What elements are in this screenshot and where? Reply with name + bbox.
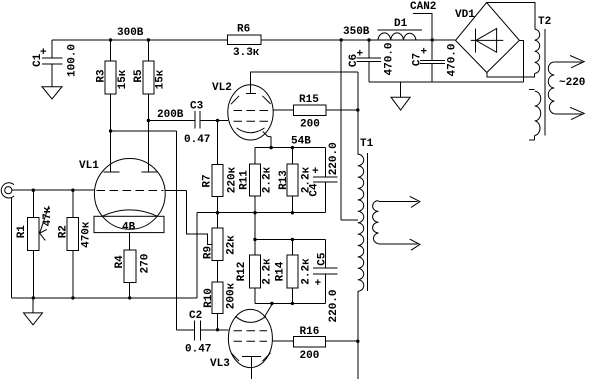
- svg-text:4В: 4В: [122, 222, 136, 234]
- svg-text:22к: 22к: [225, 235, 237, 255]
- svg-text:VL3: VL3: [210, 358, 230, 370]
- wire bridge top to T2 primary: [487, 3, 535, 30]
- resistor R6: [228, 24, 262, 60]
- svg-text:R12: R12: [236, 262, 248, 282]
- svg-text:200: 200: [300, 119, 320, 131]
- transformer T1: [358, 138, 379, 379]
- svg-text:+: +: [315, 278, 322, 290]
- svg-text:R14: R14: [274, 261, 286, 281]
- svg-text:270: 270: [139, 254, 151, 274]
- svg-text:C4: C4: [308, 183, 320, 197]
- capacitor C3: [184, 101, 210, 147]
- svg-text:R16: R16: [300, 326, 320, 338]
- resistor R9: [203, 211, 238, 282]
- resistor R16: [272, 326, 359, 362]
- node 200B wire with junction: [147, 119, 150, 122]
- svg-text:300В: 300В: [117, 27, 144, 39]
- svg-text:15к: 15к: [117, 69, 129, 89]
- transformer T2: [529, 16, 554, 140]
- terminal CAN2: [410, 1, 436, 42]
- svg-text:470.0: 470.0: [383, 42, 395, 75]
- wire bridge bottom to T2 primary bottom: [487, 73, 535, 78]
- capacitor C7: [412, 40, 459, 82]
- resistor R11: [239, 148, 274, 213]
- resistor R2: [57, 190, 92, 298]
- svg-text:C3: C3: [190, 101, 204, 113]
- svg-text:VL2: VL2: [212, 82, 232, 94]
- svg-text:R5: R5: [133, 69, 145, 83]
- svg-text:R1: R1: [16, 225, 28, 239]
- resistor R14: [274, 240, 312, 304]
- svg-text:350В: 350В: [343, 26, 370, 38]
- resistor R7: [202, 119, 239, 213]
- tube VL1: [79, 159, 165, 230]
- svg-text:+: +: [421, 47, 428, 59]
- svg-text:+: +: [312, 166, 319, 178]
- resistor R5: [133, 38, 166, 172]
- wire VL1 grid to feedback: [165, 190, 187, 192]
- svg-text:C5: C5: [317, 252, 329, 266]
- svg-text:R6: R6: [237, 24, 250, 36]
- svg-text:220.0: 220.0: [328, 142, 340, 175]
- capacitor C1: [32, 40, 79, 87]
- wire top rail 300V left: [52, 39, 228, 41]
- svg-text:220.0: 220.0: [328, 289, 340, 322]
- capacitor C2: [185, 310, 211, 356]
- svg-text:+: +: [40, 47, 47, 59]
- svg-text:2.2к: 2.2к: [261, 258, 273, 285]
- wire 350V feed down to T1 center tap: [340, 38, 343, 41]
- svg-text:200В: 200В: [157, 109, 184, 121]
- choke D1: [378, 18, 422, 40]
- svg-text:R2: R2: [57, 225, 69, 238]
- wire T2 secondary top arrow: [554, 56, 584, 68]
- svg-text:D1: D1: [394, 18, 408, 30]
- node 54B wire: [255, 147, 326, 149]
- svg-text:0.47: 0.47: [184, 134, 210, 146]
- svg-text:C2: C2: [189, 310, 202, 322]
- svg-text:54В: 54В: [291, 136, 311, 148]
- capacitor C6: [348, 38, 396, 82]
- capacitor C4: [308, 142, 340, 212]
- svg-text:200к: 200к: [226, 282, 238, 309]
- junction input wire R2: [71, 189, 74, 192]
- svg-text:~220: ~220: [559, 77, 585, 89]
- wire ground bus: [11, 297, 196, 299]
- svg-text:2.2к: 2.2к: [261, 166, 273, 193]
- wire T1 secondary top arrow: [379, 196, 420, 207]
- svg-text:R15: R15: [299, 94, 319, 106]
- svg-text:R3: R3: [96, 69, 108, 83]
- wire cathode network upper (y212.7): [197, 212, 326, 214]
- heater box 4B: [94, 216, 164, 250]
- wire feedback from VL1 grid to R9: [187, 191, 213, 245]
- junction input wire R1: [32, 189, 35, 192]
- svg-text:R13: R13: [278, 170, 290, 190]
- wire cathode network lower (y303.4): [255, 302, 326, 304]
- wire C2 to VL3 grid: [200, 329, 228, 331]
- svg-text:R4: R4: [114, 255, 126, 269]
- svg-text:VD1: VD1: [455, 9, 475, 21]
- svg-text:47к: 47к: [42, 206, 54, 226]
- svg-text:T2: T2: [538, 16, 551, 28]
- input connector X1: [1, 183, 94, 298]
- resistor R12: [236, 240, 273, 304]
- wire top rail 300V-350V-bridge: [261, 39, 455, 41]
- svg-text:R9: R9: [203, 246, 215, 259]
- svg-text:+: +: [357, 49, 364, 61]
- svg-text:2.2к: 2.2к: [301, 258, 313, 285]
- wire left anode branch to C2 runner: [109, 129, 112, 132]
- ground at C6/C7: [391, 82, 410, 110]
- wire cathode network mid (y239.5): [254, 213, 256, 240]
- svg-text:470к: 470к: [81, 221, 93, 248]
- bridge rectifier VD1: [455, 3, 519, 73]
- wire T2 secondary bottom arrow: [554, 107, 584, 119]
- svg-text:CAN2: CAN2: [410, 1, 436, 13]
- resistor R15: [273, 94, 360, 131]
- svg-text:T1: T1: [360, 138, 374, 150]
- svg-text:0.47: 0.47: [185, 344, 211, 356]
- svg-text:470.0: 470.0: [447, 43, 459, 76]
- svg-text:200: 200: [300, 350, 320, 362]
- svg-text:15к: 15к: [155, 69, 167, 89]
- resistor R10: [203, 282, 238, 330]
- svg-text:R10: R10: [203, 288, 215, 308]
- ground at bus: [24, 298, 43, 325]
- resistor R13: [278, 148, 313, 213]
- wire bridge right corner to ground: [519, 40, 523, 81]
- wire ground bus right: [369, 81, 524, 83]
- wire T1 secondary bottom arrow: [379, 239, 420, 250]
- resistor R1 potentiometer: [16, 190, 54, 298]
- capacitor C5: [313, 240, 340, 323]
- svg-text:R7: R7: [202, 174, 214, 187]
- wire C3 to VL2 grid: [200, 120, 228, 122]
- ground at C1: [42, 87, 62, 99]
- svg-text:R11: R11: [239, 170, 251, 190]
- svg-text:100.0: 100.0: [66, 44, 78, 77]
- resistor R4: [114, 250, 151, 298]
- tube VL3: [210, 305, 272, 379]
- svg-text:VL1: VL1: [79, 160, 99, 172]
- wire VL2 anode to T1 top: [251, 72, 358, 94]
- svg-text:3.3к: 3.3к: [233, 47, 260, 59]
- tube VL2: [212, 82, 273, 148]
- resistor R3: [96, 38, 130, 172]
- svg-text:220к: 220к: [227, 166, 239, 193]
